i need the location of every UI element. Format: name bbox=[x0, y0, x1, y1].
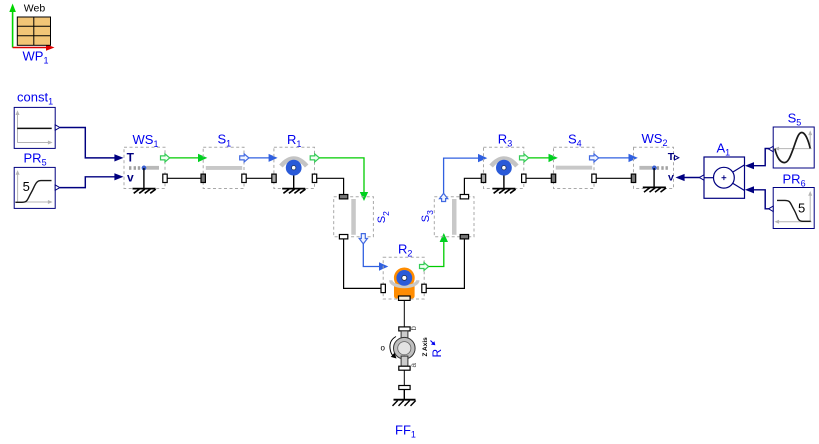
blue out arrow S2 bbox=[359, 234, 367, 244]
flange S3 bottom bbox=[460, 235, 468, 239]
flange R3 right bbox=[522, 174, 526, 182]
blue wire S3 to R3 bbox=[444, 158, 479, 193]
joint circle bbox=[394, 337, 416, 359]
span S3 bbox=[420, 193, 474, 239]
source const1 bbox=[14, 90, 60, 149]
wire S5 to A1 bbox=[754, 149, 770, 166]
flange wire S4-WS2 bbox=[596, 177, 631, 179]
wire R2 to FF1 bbox=[403, 300, 405, 327]
green wire R2 to S3 bbox=[429, 242, 444, 267]
wings R2 bbox=[391, 280, 418, 286]
svg-text:const1: const1 bbox=[17, 90, 53, 107]
flange S4 right bbox=[592, 174, 596, 182]
green out arrow R1 bbox=[310, 154, 319, 162]
flange S2 bottom bbox=[339, 235, 347, 239]
ground R1 bbox=[293, 176, 295, 189]
web bar S4 bbox=[556, 166, 593, 170]
blue out arrow S4 bbox=[590, 154, 599, 162]
green out arrow R3 bbox=[520, 154, 529, 162]
dotted rail bbox=[129, 166, 131, 170]
fixed mount bbox=[393, 386, 416, 406]
span S4 bbox=[551, 132, 598, 189]
blue out arrow S3 bbox=[440, 193, 448, 201]
span S1 bbox=[201, 132, 249, 189]
flange S1 right bbox=[242, 174, 246, 182]
green y-axis arrow bbox=[12, 11, 14, 48]
flange wire R3-S4 bbox=[526, 177, 551, 179]
rotation arrow bbox=[390, 337, 396, 358]
node dot bbox=[652, 166, 657, 171]
shaft top bbox=[401, 331, 408, 340]
flange FF1 top bbox=[399, 327, 410, 331]
green wire R1 to S2 bbox=[319, 158, 364, 193]
flange FF1 bottom bbox=[399, 366, 410, 370]
web bar S3 bbox=[452, 199, 457, 235]
svg-text:5: 5 bbox=[23, 179, 30, 194]
output port S5 bbox=[769, 146, 774, 151]
node dot bbox=[142, 166, 147, 171]
output port PR6 bbox=[769, 206, 774, 211]
wire const1 to WS1.T bbox=[60, 128, 115, 158]
web bar S1 bbox=[206, 166, 242, 170]
svg-text:5: 5 bbox=[798, 200, 805, 215]
sensor WS2 bbox=[631, 131, 679, 192]
flange WS2 left bbox=[631, 174, 635, 182]
flange wire S3-R3 bbox=[464, 178, 481, 194]
flange wire WS1-S1 bbox=[167, 177, 201, 179]
flange S2 top bbox=[339, 195, 347, 199]
roller R1 bbox=[272, 132, 320, 193]
wire PR6 to A1 bbox=[754, 190, 770, 209]
green wire R3 to S4 bbox=[529, 157, 550, 159]
svg-text:Z Axis: Z Axis bbox=[422, 337, 429, 357]
span S2 bbox=[334, 195, 391, 244]
blue out arrow S1 bbox=[240, 154, 249, 162]
svg-text:T: T bbox=[127, 151, 135, 165]
flange fixed bbox=[399, 386, 410, 390]
blue wire S1 to R1 bbox=[249, 157, 269, 159]
svg-text:R: R bbox=[430, 349, 444, 358]
drive R2 bbox=[381, 242, 429, 301]
belt arc R1 bbox=[281, 159, 307, 167]
block WP1 web-tension table bbox=[9, 3, 54, 66]
ground WS1 bbox=[143, 168, 145, 188]
flange S3 top bbox=[460, 195, 468, 199]
flange S1 left bbox=[201, 174, 205, 182]
roller R3 bbox=[481, 131, 528, 193]
svg-text:Web: Web bbox=[24, 3, 46, 15]
ground FF1 bbox=[394, 399, 416, 401]
table bbox=[17, 17, 50, 45]
pulley R2 bbox=[396, 270, 412, 286]
svg-text:v: v bbox=[127, 170, 134, 184]
source S5 bbox=[769, 110, 815, 168]
flange S4 left bbox=[551, 174, 555, 182]
wire PR5 to WS1.v bbox=[60, 177, 115, 188]
flange R1 left bbox=[272, 174, 276, 182]
svg-text:T: T bbox=[668, 151, 675, 163]
ground WS2 bbox=[653, 168, 655, 187]
flange R2 right bbox=[422, 284, 426, 292]
flange R2 left bbox=[381, 284, 385, 292]
flange R2 bottom bbox=[399, 296, 411, 300]
source PR5 bbox=[14, 151, 60, 209]
output port PR5 bbox=[55, 185, 60, 190]
motor body R2 bbox=[394, 283, 415, 299]
joint FF1 bbox=[381, 326, 445, 440]
green out arrow WS1 bbox=[161, 154, 170, 162]
flange wire S1-R1 bbox=[246, 177, 272, 179]
pulley R3 bbox=[496, 160, 512, 176]
green out arrow R2 bbox=[420, 263, 429, 271]
pulley R1 bbox=[286, 160, 302, 176]
svg-text:v: v bbox=[668, 171, 674, 183]
web bar S2 bbox=[351, 199, 356, 235]
flange R3 left bbox=[481, 174, 485, 182]
shaft bottom bbox=[401, 356, 408, 366]
solid rail bbox=[639, 166, 652, 170]
flange wire S2-R2 bbox=[344, 239, 381, 289]
adder A1 bbox=[699, 141, 744, 199]
wire A1 to WS2.v bbox=[684, 177, 701, 179]
flange R1 right bbox=[312, 174, 316, 182]
ground R3 bbox=[503, 176, 505, 189]
output port const1 bbox=[55, 125, 60, 130]
output port A1 bbox=[699, 175, 704, 180]
blue wire S2 to R2 bbox=[363, 244, 379, 267]
svg-text:o: o bbox=[381, 344, 386, 353]
flange wire R2-S3 bbox=[426, 239, 464, 289]
belt arc R3 bbox=[491, 159, 517, 167]
svg-text:b: b bbox=[409, 326, 418, 331]
wire FF1 to fixed bbox=[403, 370, 405, 385]
flange wire R1-S2 bbox=[317, 178, 344, 194]
flange WS1 right bbox=[163, 174, 167, 182]
green wire WS1 to S1 bbox=[170, 157, 199, 159]
sensor WS1 bbox=[124, 132, 170, 193]
source PR6 bbox=[769, 172, 815, 229]
red x-axis arrow bbox=[13, 47, 47, 49]
blue wire S4 to WS2 bbox=[599, 157, 629, 159]
